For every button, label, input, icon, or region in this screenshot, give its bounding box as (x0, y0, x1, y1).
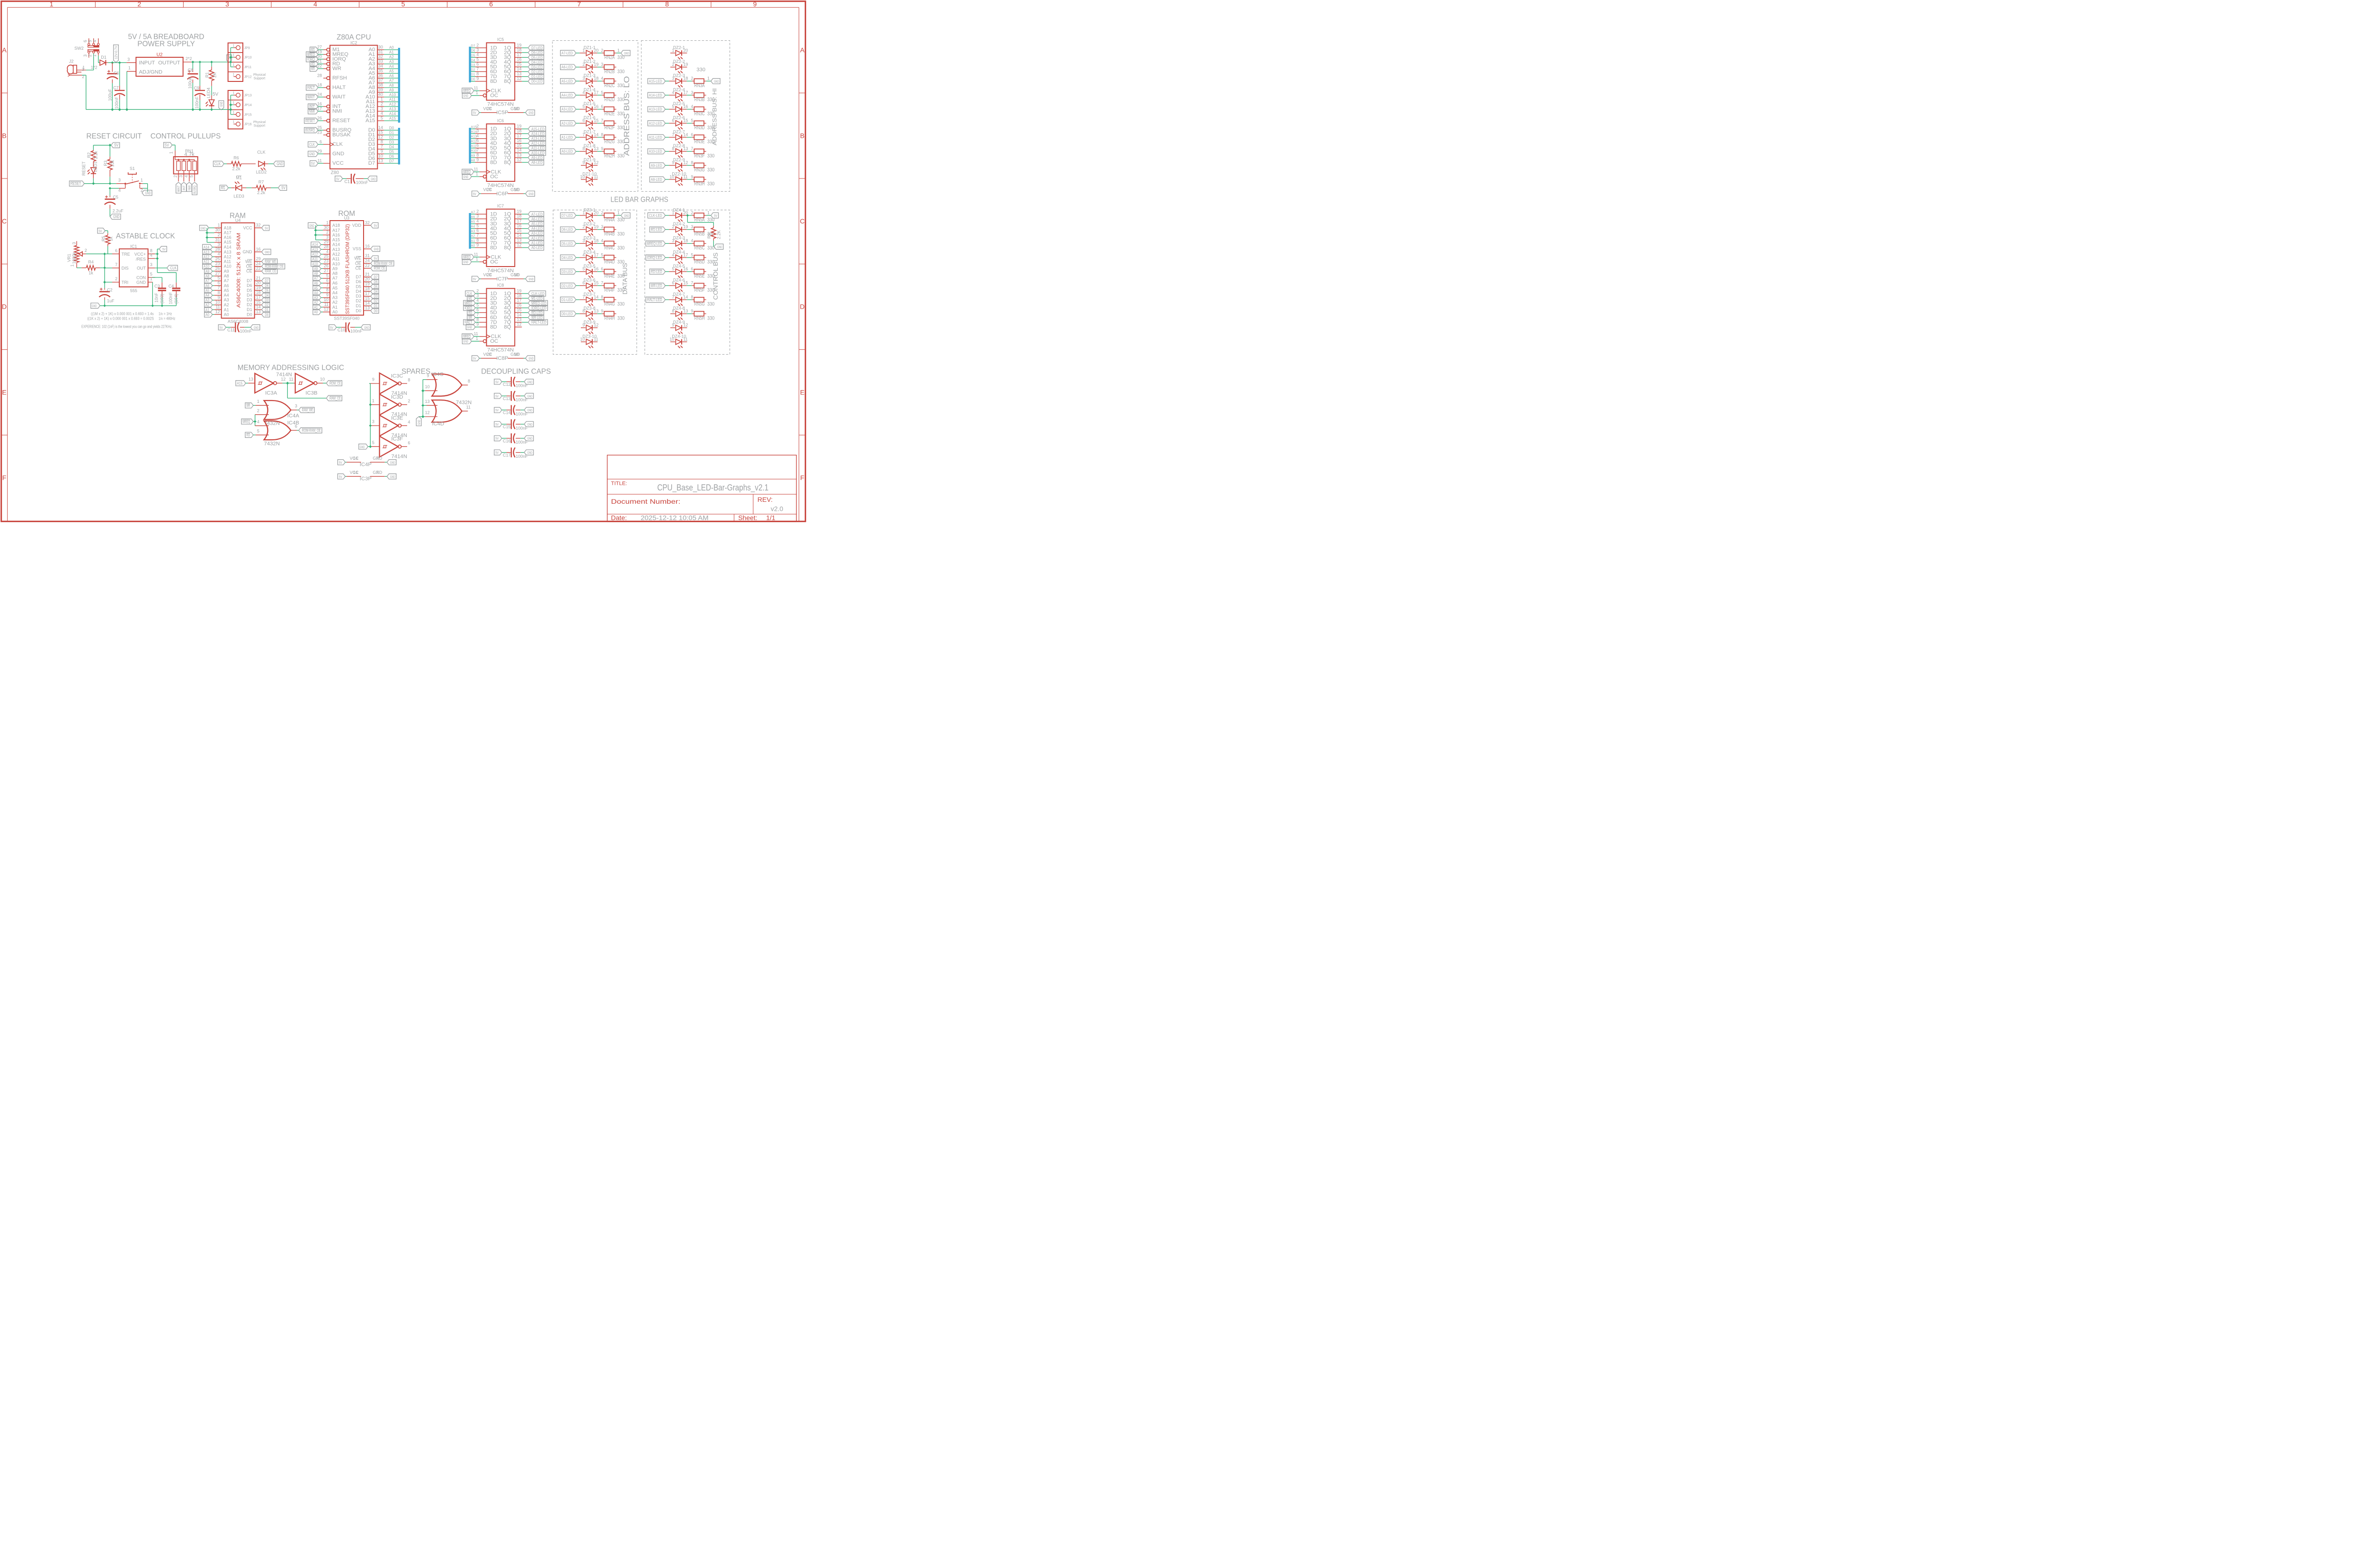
svg-text:IC7: IC7 (497, 204, 504, 208)
svg-text:AS6C4008: AS6C4008 (228, 319, 249, 324)
svg-text:A13: A13 (389, 107, 396, 111)
flag ROM-RAM_OE U3 (371, 261, 394, 266)
svg-text:ROM-RAM_OE: ROM-RAM_OE (265, 265, 284, 269)
capacitor C13 100nF (494, 391, 534, 402)
LED DZ2-2 (670, 59, 688, 73)
svg-text:14: 14 (517, 148, 522, 152)
junction U3 A16 (314, 234, 317, 236)
svg-text:IC5: IC5 (497, 37, 504, 42)
flag D0-LED (561, 311, 580, 316)
label CONTROL BUS (712, 252, 719, 300)
svg-text:5V: 5V (330, 326, 333, 330)
svg-text:21: 21 (256, 276, 261, 280)
svg-text:5V: 5V (495, 452, 498, 455)
svg-text:6: 6 (115, 248, 117, 253)
svg-text:A0: A0 (314, 310, 318, 314)
latch IC7 74HC574N (474, 204, 522, 274)
pin A13 IC2 (365, 106, 398, 114)
svg-text:15: 15 (256, 300, 261, 304)
wire IC3A out (283, 382, 294, 384)
pin RESET IC2 (317, 116, 350, 124)
svg-text:A14: A14 (389, 112, 396, 116)
svg-text:A12: A12 (332, 252, 340, 257)
svg-text:13: 13 (517, 317, 522, 322)
flag WAIT IC2 (306, 94, 323, 99)
svg-text:F: F (2, 474, 7, 481)
pin A18 U4 (214, 223, 231, 231)
flag GND led bank (706, 79, 721, 84)
svg-text:D6: D6 (247, 283, 252, 288)
flag A0 U3 (313, 309, 323, 314)
svg-text:A4: A4 (205, 294, 209, 298)
flag GND U4 A18 (200, 225, 214, 231)
svg-text:25: 25 (324, 254, 329, 259)
svg-text:1: 1 (232, 101, 234, 105)
svg-text:9: 9 (582, 160, 585, 165)
svg-text:330: 330 (707, 302, 714, 307)
pin A18 U3 (323, 220, 340, 228)
svg-text:RAM_CE: RAM_CE (329, 396, 341, 401)
svg-text:9: 9 (672, 160, 674, 165)
wire A15 IC6 (471, 125, 480, 129)
svg-text:AS6C4008: 512K x 8 SRAM: AS6C4008: 512K x 8 SRAM (236, 233, 241, 308)
flag 5V reset (111, 143, 120, 148)
svg-text:2: 2 (173, 175, 178, 178)
svg-text:HALT: HALT (464, 321, 472, 325)
capacitor C7 100nF (113, 62, 125, 109)
svg-text:8: 8 (326, 288, 329, 293)
svg-text:11: 11 (683, 174, 687, 179)
svg-text:13: 13 (594, 309, 598, 313)
svg-text:D4: D4 (471, 59, 475, 62)
pin NMI IC2 (317, 106, 342, 114)
svg-text:4: 4 (476, 53, 479, 57)
flag M1 led3 (220, 185, 228, 190)
svg-text:A15-LED: A15-LED (531, 127, 544, 131)
flag A8-LED IC6 output (522, 160, 543, 165)
svg-text:29: 29 (324, 240, 329, 244)
svg-text:1: 1 (232, 92, 234, 95)
svg-text:13: 13 (517, 152, 522, 157)
svg-text:A3: A3 (471, 230, 475, 233)
svg-text:18: 18 (365, 286, 370, 291)
flag D2-LED IC5 output (522, 69, 543, 74)
svg-text:A0: A0 (471, 244, 475, 248)
flag A12 U4 (203, 254, 214, 259)
svg-text:A6: A6 (314, 281, 318, 285)
svg-text:9: 9 (476, 242, 479, 247)
flag A6 U3 (313, 280, 323, 285)
svg-text:C12: C12 (503, 382, 511, 387)
svg-text:C16: C16 (503, 438, 511, 443)
LED1 (81, 161, 98, 183)
svg-text:A6-LED: A6-LED (561, 65, 573, 70)
pin A12 IC2 (365, 101, 398, 109)
junction U4 A16 (206, 236, 208, 239)
svg-text:LED BAR GRAPHS: LED BAR GRAPHS (611, 196, 668, 204)
svg-text:A10: A10 (224, 264, 231, 269)
svg-text:GND: GND (527, 423, 533, 427)
svg-text:GND: GND (201, 227, 206, 230)
svg-text:D3: D3 (471, 63, 475, 67)
svg-text:D6: D6 (389, 154, 394, 159)
wire 5V to RN1 (172, 145, 175, 151)
svg-text:18: 18 (517, 293, 522, 298)
svg-text:A17: A17 (224, 231, 231, 235)
flag GND U3 (371, 246, 380, 251)
svg-text:6: 6 (601, 104, 603, 109)
svg-text:17: 17 (594, 90, 598, 95)
wire GND to JP13-15 (221, 95, 233, 115)
svg-text:10: 10 (514, 352, 519, 356)
svg-text:2: 2 (137, 0, 141, 8)
pin M1 IC2 (317, 45, 340, 53)
svg-text:R8: R8 (707, 233, 712, 239)
svg-text:330: 330 (707, 97, 714, 103)
svg-text:5V: 5V (281, 186, 285, 190)
svg-text:A6: A6 (389, 74, 394, 78)
svg-text:IC4P: IC4P (360, 462, 372, 467)
svg-text:RAM_CE: RAM_CE (265, 269, 276, 274)
svg-text:330: 330 (707, 153, 714, 159)
svg-text:HALT-LED: HALT-LED (531, 321, 546, 325)
svg-text:RN2C: RN2C (605, 83, 615, 89)
svg-text:M1: M1 (468, 296, 472, 301)
svg-text:A0: A0 (332, 310, 338, 314)
svg-text:15: 15 (517, 62, 522, 67)
supply flag 5V at JP9 (227, 55, 232, 62)
svg-text:40: 40 (378, 92, 383, 97)
resistor RN3F 330 (691, 146, 714, 159)
flag IORQ IC8 input (463, 305, 480, 311)
svg-text:GND: GND (309, 224, 314, 228)
flag 5V led3 (278, 185, 287, 190)
LED DZ4-7 (669, 292, 694, 306)
svg-text:11: 11 (466, 405, 471, 410)
power pins IC3P (338, 470, 396, 481)
heading DECOUPLING CAPS (481, 367, 551, 375)
svg-text:RESET: RESET (332, 118, 350, 124)
svg-text:A2: A2 (389, 55, 394, 59)
svg-text:RN2H: RN2H (605, 153, 615, 159)
svg-text:330: 330 (617, 139, 624, 145)
wire 555 VCC RES (155, 249, 160, 258)
svg-text:A8-LED: A8-LED (531, 160, 543, 165)
svg-text:D5: D5 (247, 288, 252, 293)
svg-text:4: 4 (326, 249, 329, 254)
svg-text:9: 9 (381, 149, 383, 153)
flag GND IC8 input (466, 324, 480, 330)
pin A3 IC2 (368, 59, 398, 67)
svg-text:3: 3 (82, 67, 84, 72)
svg-text:8Q: 8Q (504, 79, 511, 84)
svg-text:29: 29 (317, 149, 322, 153)
svg-text:14: 14 (517, 67, 522, 71)
svg-text:8D: 8D (490, 245, 497, 250)
flag A4 U4 (205, 293, 214, 298)
svg-text:9: 9 (691, 174, 693, 179)
pin D0 U4 (247, 309, 262, 317)
svg-text:A13: A13 (332, 247, 340, 252)
svg-text:IC3D: IC3D (391, 394, 403, 400)
svg-text:1: 1 (672, 48, 674, 53)
pin A13 U4 (214, 247, 231, 254)
svg-text:A2: A2 (205, 303, 209, 307)
junction 555 pin4 (156, 257, 159, 259)
flag GND spares inverters (359, 444, 371, 449)
svg-text:1: 1 (141, 178, 143, 182)
flag D3 U3 (371, 294, 379, 299)
flag HALT-LED (646, 297, 669, 302)
svg-text:RN5E: RN5E (694, 273, 705, 279)
svg-text:3: 3 (218, 242, 220, 247)
LED DZ3-8 (579, 306, 604, 320)
svg-text:HALT: HALT (307, 86, 315, 90)
flag CLK led2 (214, 161, 224, 166)
pin D0 U3 (356, 305, 371, 313)
svg-text:5: 5 (476, 303, 479, 308)
svg-text:10: 10 (514, 106, 519, 111)
svg-text:24: 24 (365, 258, 370, 263)
svg-text:NMI: NMI (332, 108, 342, 114)
svg-text:7: 7 (601, 281, 603, 285)
LED DZ4-4 (669, 249, 694, 264)
svg-text:IC6: IC6 (497, 118, 504, 123)
svg-text:6: 6 (489, 0, 493, 8)
svg-text:23: 23 (324, 259, 329, 264)
svg-text:6: 6 (476, 62, 479, 67)
dashed box DATA BUS (553, 210, 637, 355)
flag RAM_WE logic (297, 407, 314, 412)
svg-text:10: 10 (669, 174, 674, 179)
svg-text:15: 15 (517, 143, 522, 148)
svg-text:A3-LED: A3-LED (531, 232, 543, 236)
svg-text:1: 1 (232, 44, 234, 47)
flag GND astable (91, 303, 100, 308)
junction 5V rail R1 (211, 61, 213, 63)
svg-text:RN5D: RN5D (694, 259, 705, 265)
text 7432N IC4B (264, 441, 280, 446)
svg-text:2: 2 (691, 76, 693, 81)
svg-text:VCC: VCC (332, 160, 344, 166)
wire CON to C3 (152, 277, 162, 283)
svg-text:A7-LED: A7-LED (561, 51, 573, 55)
svg-text:17: 17 (517, 219, 522, 223)
svg-text:D: D (2, 303, 7, 311)
svg-text:3: 3 (225, 0, 229, 8)
svg-text:A15: A15 (365, 118, 375, 124)
svg-text:D6: D6 (265, 284, 268, 288)
flag A13 U4 (203, 249, 214, 255)
svg-text:D1: D1 (356, 303, 361, 308)
svg-text:14: 14 (517, 233, 522, 238)
resistor R5 1k (101, 231, 113, 254)
pin D0 IC2 (368, 125, 398, 133)
svg-text:11: 11 (289, 377, 293, 382)
svg-text:8: 8 (381, 139, 383, 144)
resistor RN2B 330 (601, 62, 624, 74)
connector J2 (67, 59, 97, 79)
flag A2 U4 (205, 302, 214, 307)
flag M1 IC2 (310, 47, 323, 52)
svg-text:2: 2 (88, 54, 92, 57)
svg-text:12: 12 (378, 134, 383, 139)
svg-text:10nF: 10nF (154, 293, 159, 303)
flag D7-LED (561, 213, 580, 218)
pin VSS U3 (353, 244, 371, 251)
resistor R3 10k (103, 157, 115, 184)
junction RESET R3 (109, 182, 111, 185)
pin A7 U4 (214, 276, 229, 283)
svg-text:RESET CIRCUIT: RESET CIRCUIT (86, 132, 142, 140)
flag A9-LED IC6 output (522, 155, 543, 160)
svg-text:A1: A1 (314, 305, 318, 310)
LED DZ3-10 (580, 334, 598, 348)
svg-text:11: 11 (474, 86, 478, 90)
LED DZ2-10 (669, 171, 694, 186)
svg-text:5: 5 (601, 252, 603, 257)
LED2 (256, 150, 274, 174)
svg-text:1k: 1k (89, 271, 93, 276)
svg-text:RESET: RESET (305, 119, 315, 123)
flag GND IC5 oc (463, 93, 480, 98)
flag WR IC2 (310, 66, 323, 71)
svg-text:VCC: VCC (243, 225, 253, 230)
svg-text:5: 5 (326, 273, 329, 278)
svg-text:A14: A14 (224, 245, 231, 249)
svg-text:330: 330 (617, 69, 624, 74)
svg-text:4: 4 (691, 104, 693, 109)
svg-text:19: 19 (683, 224, 688, 229)
svg-text:MREQ: MREQ (463, 255, 471, 259)
svg-text:16: 16 (365, 244, 370, 249)
svg-text:4: 4 (691, 239, 693, 243)
pin A15 U4 (214, 237, 231, 244)
svg-text:19: 19 (365, 282, 370, 286)
pin D7 IC2 (368, 158, 398, 166)
svg-text:17: 17 (365, 291, 370, 296)
svg-text:A4: A4 (389, 64, 394, 69)
svg-text:RN3C: RN3C (694, 111, 705, 116)
svg-text:A4-LED: A4-LED (531, 227, 543, 231)
svg-text:R6: R6 (233, 156, 239, 160)
svg-text:A8: A8 (471, 159, 475, 162)
svg-text:2: 2 (691, 210, 693, 215)
svg-text:7: 7 (381, 144, 383, 149)
flag ROM_CE U3 (371, 266, 386, 271)
svg-text:20: 20 (256, 281, 261, 285)
svg-text:7: 7 (582, 294, 585, 299)
svg-text:U2: U2 (157, 53, 163, 58)
svg-text:330: 330 (707, 181, 714, 187)
svg-text:1: 1 (232, 54, 234, 57)
svg-text:8: 8 (691, 160, 693, 165)
svg-text:18: 18 (594, 76, 598, 81)
svg-text:10k: 10k (110, 160, 115, 167)
pin WR IC2 (317, 63, 341, 71)
flag A6 U4 (205, 283, 214, 288)
pin D3 IC2 (368, 139, 398, 147)
svg-text:IC3E: IC3E (391, 415, 403, 421)
svg-text:330: 330 (707, 111, 714, 116)
svg-text:A5: A5 (471, 221, 475, 224)
svg-text:A4-LED: A4-LED (561, 93, 573, 98)
svg-text:TRI: TRI (122, 280, 129, 285)
svg-text:A8: A8 (224, 274, 229, 278)
flag D6 U4 (262, 283, 270, 288)
svg-text:6: 6 (601, 267, 603, 271)
pin A7 IC2 (368, 78, 398, 86)
flag D5 U4 (262, 288, 270, 293)
flag D5 U3 (371, 284, 379, 289)
pin A11 U3 (323, 254, 339, 261)
svg-text:11: 11 (324, 302, 329, 307)
svg-text:2.2k: 2.2k (232, 166, 240, 171)
svg-text:SST39SF040 512KB FLASHROM (DIP: SST39SF040 512KB FLASHROM (DIP32) (345, 224, 350, 314)
svg-text:1: 1 (707, 210, 710, 215)
flag A4-LED IC7 output (522, 226, 543, 231)
junction reset 5V (109, 144, 111, 146)
svg-text:RN4B: RN4B (605, 231, 615, 237)
svg-text:4.7k: 4.7k (184, 152, 195, 158)
svg-text:6: 6 (672, 281, 674, 285)
text 7432N IC4A (264, 420, 280, 426)
svg-text:A1: A1 (332, 305, 338, 310)
svg-text:12: 12 (517, 322, 522, 327)
svg-text:10: 10 (514, 187, 519, 192)
junction JP14 GND (230, 104, 232, 106)
svg-text:A4: A4 (471, 225, 475, 229)
cpu IC2 Z80 (330, 40, 377, 175)
svg-text:A13: A13 (204, 250, 209, 254)
svg-text:7432N: 7432N (264, 441, 280, 446)
pin A1 U3 (323, 302, 338, 310)
svg-text:6: 6 (83, 40, 88, 42)
svg-text:F: F (800, 474, 804, 481)
flag WR-LED IC8 output (522, 315, 543, 320)
svg-text:IC5P: IC5P (496, 110, 508, 116)
svg-text:4: 4 (408, 419, 410, 424)
svg-text:27: 27 (324, 268, 329, 273)
junction 5V rail C8 (192, 61, 194, 63)
flag D5-LED (561, 241, 580, 246)
svg-text:A7: A7 (205, 279, 209, 283)
or gate IC4B (256, 419, 299, 440)
wire SW2 pin1 to D1 (98, 53, 100, 63)
svg-text:5V: 5V (495, 395, 498, 398)
flag INT pullup (181, 182, 187, 192)
svg-text:Z80: Z80 (331, 170, 339, 175)
svg-text:A2: A2 (314, 301, 318, 305)
resistor RN3E 330 (691, 132, 714, 144)
svg-text:5V: 5V (495, 381, 498, 384)
junction GND C2 (104, 304, 106, 307)
svg-text:A7: A7 (332, 276, 338, 281)
svg-text:8D: 8D (490, 79, 497, 84)
wire MREQ split (253, 415, 269, 426)
power pins IC6P (472, 187, 535, 197)
svg-text:C1: C1 (344, 179, 350, 184)
svg-text:CE: CE (355, 266, 361, 271)
svg-text:18: 18 (517, 214, 522, 219)
junction 12V rail C6 (111, 62, 114, 64)
svg-text:5: 5 (601, 90, 603, 95)
svg-text:12: 12 (683, 323, 688, 328)
svg-text:CPU_Base_LED-Bar-Graphs_v2.1: CPU_Base_LED-Bar-Graphs_v2.1 (657, 482, 768, 493)
pin D7 U3 (356, 272, 371, 279)
capacitor C4 100nF (169, 283, 180, 306)
svg-text:A15: A15 (389, 116, 396, 121)
